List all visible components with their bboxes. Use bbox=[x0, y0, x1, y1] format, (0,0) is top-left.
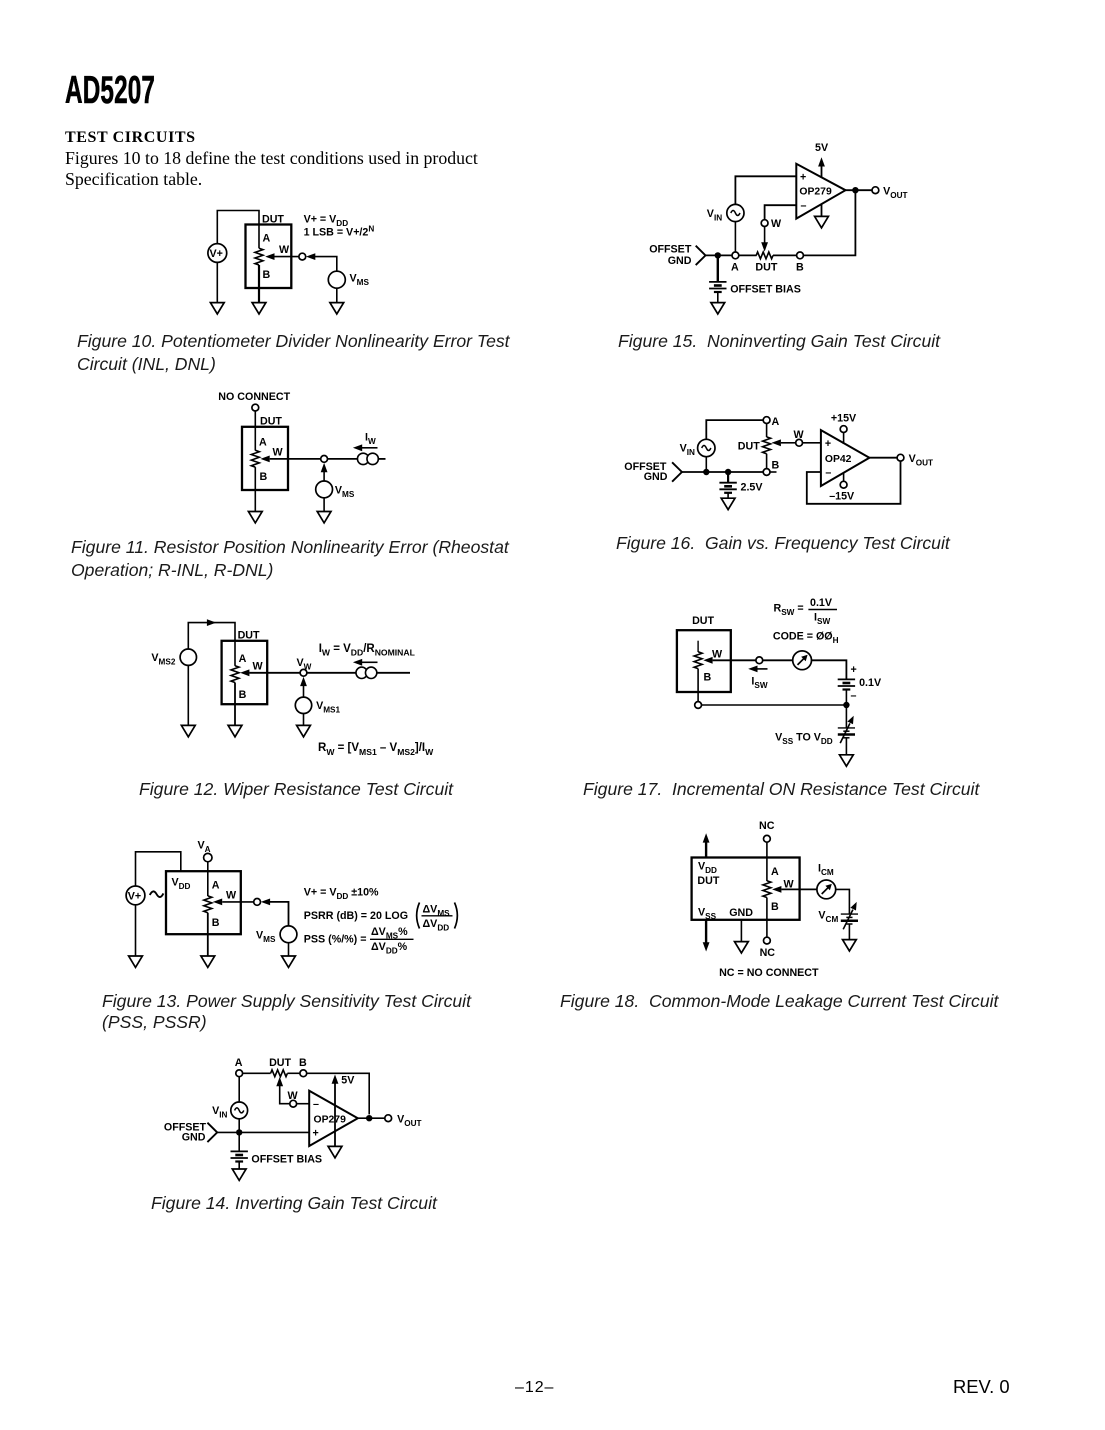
svg-text:DUT: DUT bbox=[262, 214, 284, 226]
wiper arrow bbox=[772, 886, 781, 893]
ground below VCM bbox=[843, 940, 857, 951]
caption figure 11 bbox=[71, 536, 509, 582]
variable source VCM bbox=[841, 902, 858, 929]
svg-text:B: B bbox=[299, 1057, 307, 1069]
feedback wire bbox=[807, 461, 901, 504]
wire V+ top to box bbox=[136, 852, 181, 886]
wire offset gnd to B bbox=[682, 471, 763, 473]
svg-text:A: A bbox=[731, 262, 739, 274]
ground below VMS2 bbox=[181, 725, 195, 736]
ground below op-amp bbox=[328, 1146, 342, 1157]
svg-text:A: A bbox=[235, 1057, 243, 1069]
wire battery to ground bbox=[717, 292, 719, 303]
ground below battery bbox=[232, 1169, 246, 1180]
svg-text:A: A bbox=[259, 437, 267, 449]
5V arrow bbox=[818, 157, 825, 166]
svg-text:W: W bbox=[273, 447, 284, 459]
op-amp OP42 bbox=[821, 430, 870, 486]
wire W to op-amp bbox=[803, 442, 822, 444]
wire A to resistor bbox=[739, 254, 757, 256]
VSS arrow down bbox=[705, 920, 707, 944]
svg-text:VIN: VIN bbox=[680, 443, 695, 458]
svg-text:W: W bbox=[771, 218, 782, 230]
wire meter to vsource bbox=[836, 889, 850, 914]
source VMS1 bbox=[295, 697, 311, 713]
wire resistor to NC bottom bbox=[766, 898, 768, 938]
wire wiper to meter bbox=[781, 888, 817, 890]
svg-text:A: A bbox=[263, 233, 271, 245]
stub right of B bbox=[770, 471, 777, 473]
svg-text:NC: NC bbox=[759, 820, 775, 832]
resistor DUT bbox=[763, 437, 771, 454]
wire junction to battery bbox=[717, 255, 719, 281]
svg-text:+: + bbox=[313, 1128, 319, 1140]
wire GND to ground bbox=[740, 920, 742, 942]
ground below V+ bbox=[129, 956, 143, 967]
svg-text:DUT: DUT bbox=[697, 875, 719, 887]
current source IW bbox=[356, 667, 377, 678]
ground below DUT bbox=[228, 725, 242, 736]
node VW bbox=[300, 669, 307, 676]
junction VIN bbox=[703, 469, 709, 475]
current source IW bbox=[357, 453, 378, 464]
terminal W bbox=[796, 439, 803, 446]
caption figure 14 bbox=[151, 1193, 437, 1214]
svg-text:DUT: DUT bbox=[269, 1057, 291, 1069]
wire offset gnd to op-amp plus bbox=[217, 1131, 310, 1133]
svg-text:ISW: ISW bbox=[814, 612, 830, 627]
svg-text:A: A bbox=[212, 880, 220, 892]
junction bbox=[843, 702, 849, 708]
svg-text:–: – bbox=[825, 467, 831, 479]
wire resistor to B bbox=[773, 254, 797, 256]
caption figure 16 bbox=[616, 533, 950, 554]
source VMS bbox=[316, 481, 333, 498]
svg-text:NC = NO CONNECT: NC = NO CONNECT bbox=[719, 967, 819, 979]
wire B to output junction bbox=[307, 1073, 370, 1114]
node bbox=[254, 899, 261, 906]
terminal B bbox=[763, 469, 770, 476]
heading TEST CIRCUITS bbox=[65, 129, 196, 147]
wire B to ground bbox=[207, 913, 209, 956]
wire battery to ground bbox=[238, 1162, 240, 1170]
output wire bbox=[869, 457, 897, 459]
wire current source to right bbox=[377, 672, 410, 674]
svg-text:W: W bbox=[794, 429, 805, 441]
wiper arrow bbox=[772, 439, 781, 446]
svg-text:2.5V: 2.5V bbox=[741, 482, 764, 494]
svg-text:VA: VA bbox=[198, 840, 211, 855]
svg-text:VMS: VMS bbox=[350, 273, 370, 288]
ground bbox=[840, 755, 854, 766]
wiper arrow bbox=[240, 669, 249, 676]
svg-text:ISW: ISW bbox=[751, 675, 767, 690]
svg-text:VDD: VDD bbox=[172, 877, 191, 892]
ground below DUT bbox=[248, 512, 262, 523]
terminal +15V bbox=[840, 426, 847, 433]
fraction bar bbox=[808, 609, 837, 611]
wire NC to DUT bbox=[254, 411, 256, 451]
wire junction to battery 2.5V bbox=[727, 472, 729, 483]
svg-text:OFFSET: OFFSET bbox=[649, 243, 692, 255]
wire A to resistor bbox=[766, 424, 768, 438]
svg-text:+: + bbox=[825, 438, 831, 450]
terminal W bbox=[761, 220, 768, 227]
wire vsource to ground bbox=[845, 738, 847, 755]
wire +15V into op-amp bbox=[843, 433, 845, 445]
wire to plus input bbox=[735, 176, 796, 204]
svg-text:W: W bbox=[253, 661, 264, 673]
wire B to ground bbox=[234, 683, 236, 726]
svg-text:OP42: OP42 bbox=[825, 454, 852, 465]
wire vsource to ground bbox=[848, 924, 850, 940]
arrow on top wire bbox=[207, 619, 216, 626]
resistor DUT bbox=[251, 450, 259, 467]
op-amp OP279 bbox=[309, 1091, 358, 1146]
wiper arrow down bbox=[764, 227, 766, 244]
chevron offset gnd bbox=[696, 246, 706, 265]
svg-text:+: + bbox=[851, 664, 857, 676]
svg-text:B: B bbox=[260, 471, 268, 483]
svg-text:–: – bbox=[313, 1099, 319, 1111]
caption figure 15 bbox=[618, 331, 940, 352]
terminal B bbox=[797, 252, 804, 259]
svg-text:OP279: OP279 bbox=[799, 187, 832, 198]
wire B to output bbox=[803, 190, 855, 255]
svg-text:ΔVMS%: ΔVMS% bbox=[371, 926, 408, 941]
wire VMS to ground bbox=[336, 288, 338, 302]
DUT box bbox=[242, 427, 288, 490]
arrow ISW bbox=[748, 666, 757, 673]
paren right bbox=[455, 903, 458, 929]
chevron offset gnd bbox=[672, 462, 682, 481]
wiper arrow up bbox=[276, 1077, 283, 1086]
arrow from VMS bbox=[261, 899, 270, 906]
arrow VMS1 into node bbox=[300, 677, 307, 686]
ground below VMS bbox=[317, 512, 331, 523]
svg-text:GND: GND bbox=[729, 907, 753, 919]
terminal VA bbox=[204, 853, 212, 861]
svg-text:VDD: VDD bbox=[698, 861, 717, 876]
ground below GND bbox=[735, 942, 749, 953]
svg-text:VCM: VCM bbox=[818, 910, 838, 925]
wire resistor B to ground bbox=[258, 265, 260, 303]
caption figure 18 bbox=[560, 991, 998, 1012]
svg-text:W: W bbox=[279, 244, 290, 256]
wire meter to battery bbox=[812, 660, 847, 679]
svg-text:B: B bbox=[771, 901, 779, 913]
wire VIN to bottom bbox=[705, 457, 707, 472]
battery OFFSET BIAS bbox=[231, 1151, 248, 1161]
arrow IW direction bbox=[353, 444, 362, 451]
svg-text:OFFSET BIAS: OFFSET BIAS bbox=[730, 284, 801, 296]
wire VMS to node bbox=[268, 902, 289, 926]
svg-text:A: A bbox=[239, 653, 247, 665]
ground below DUT bbox=[201, 956, 215, 967]
wire A to resistor bbox=[243, 1072, 271, 1074]
wire VMS2 to ground bbox=[187, 665, 189, 725]
paragraph intro bbox=[65, 148, 478, 190]
junction battery bbox=[715, 252, 721, 258]
ground below DUT bbox=[252, 303, 266, 314]
svg-text:1 LSB = V+/2N: 1 LSB = V+/2N bbox=[304, 225, 375, 239]
svg-text:B: B bbox=[796, 262, 804, 274]
wire -15V into op-amp bbox=[843, 473, 845, 482]
battery OFFSET BIAS bbox=[709, 282, 726, 292]
ac tilde bbox=[150, 891, 164, 897]
svg-text:ΔVDD: ΔVDD bbox=[423, 918, 450, 933]
wire minus input bbox=[765, 205, 797, 219]
wiper arrow bbox=[703, 657, 712, 664]
svg-text:5V: 5V bbox=[341, 1075, 355, 1087]
svg-text:IW = VDD/RNOMINAL: IW = VDD/RNOMINAL bbox=[319, 643, 415, 658]
fraction PSS bar bbox=[370, 938, 414, 940]
caption figure 13 bbox=[102, 991, 471, 1033]
node bbox=[756, 657, 763, 664]
terminal B bbox=[300, 1070, 307, 1077]
wire top to A bbox=[706, 420, 763, 439]
DUT box bbox=[246, 225, 292, 289]
terminal A bbox=[763, 417, 770, 424]
svg-text:–15V: –15V bbox=[829, 491, 855, 503]
svg-text:VMS1: VMS1 bbox=[316, 700, 340, 715]
svg-text:GND: GND bbox=[644, 471, 668, 483]
resistor DUT A-B bbox=[255, 248, 263, 265]
resistor DUT bbox=[231, 666, 239, 683]
wire W to op-amp bbox=[297, 1103, 310, 1105]
wire B to ground bbox=[254, 467, 256, 511]
arrow VMS into node bbox=[321, 463, 328, 472]
source VIN bbox=[698, 439, 715, 456]
wire W to node bbox=[249, 672, 300, 674]
svg-text:VOUT: VOUT bbox=[909, 453, 933, 468]
svg-text:PSRR (dB) = 20 LOG: PSRR (dB) = 20 LOG bbox=[304, 910, 408, 922]
DUT box bbox=[166, 871, 241, 934]
output wire bbox=[358, 1117, 385, 1119]
svg-text:DUT: DUT bbox=[755, 262, 777, 274]
terminal A bbox=[732, 252, 739, 259]
wire junction to battery bbox=[238, 1132, 240, 1151]
wire VA into box bbox=[207, 862, 209, 896]
svg-text:V+ = VDD ±10%: V+ = VDD ±10% bbox=[304, 887, 379, 902]
wire W to node bbox=[222, 901, 254, 903]
wire VMS to ground bbox=[288, 943, 290, 956]
caption figure 12 bbox=[139, 779, 453, 800]
resistor DUT bbox=[271, 1070, 288, 1077]
svg-text:RSW =: RSW = bbox=[774, 603, 804, 618]
resistor DUT bbox=[204, 896, 212, 913]
terminal VOUT bbox=[385, 1115, 392, 1122]
svg-text:W: W bbox=[226, 890, 237, 902]
terminal A bbox=[236, 1070, 243, 1077]
svg-text:0.1V: 0.1V bbox=[810, 597, 833, 609]
DUT box bbox=[222, 641, 268, 704]
chevron offset gnd bbox=[207, 1123, 217, 1142]
wire wiper to W bbox=[781, 442, 796, 444]
svg-text:GND: GND bbox=[182, 1132, 206, 1144]
svg-text:V+: V+ bbox=[128, 890, 141, 902]
wire current source tail bbox=[378, 458, 385, 460]
svg-text:VIN: VIN bbox=[707, 208, 722, 223]
svg-text:–: – bbox=[801, 200, 807, 212]
caption figure 10 bbox=[77, 330, 510, 377]
svg-text:ICM: ICM bbox=[818, 863, 834, 878]
DUT box bbox=[692, 858, 800, 920]
svg-text:B: B bbox=[212, 917, 220, 929]
resistor DUT bbox=[763, 881, 771, 898]
arrow IW direction bbox=[353, 659, 362, 666]
svg-text:ΔVDD%: ΔVDD% bbox=[371, 941, 408, 956]
wire resistor B to node bbox=[697, 669, 699, 702]
footer revision bbox=[953, 1376, 1010, 1398]
wire VMS to node bbox=[313, 257, 337, 272]
terminal NC bbox=[252, 404, 259, 411]
terminal W bbox=[290, 1100, 297, 1107]
svg-text:W: W bbox=[712, 648, 723, 660]
source VIN sine bbox=[231, 1102, 248, 1119]
wire offset gnd to A bbox=[706, 254, 733, 256]
source VMS bbox=[328, 271, 345, 288]
ground below battery bbox=[721, 498, 735, 509]
5V arrow bbox=[332, 1075, 339, 1084]
wire resistor to B bbox=[287, 1072, 300, 1074]
terminal NC top bbox=[764, 835, 771, 842]
wire VIN to A bbox=[734, 222, 736, 252]
battery 2.5V bbox=[719, 483, 736, 493]
wire VMS2 top to DUT bbox=[188, 623, 235, 666]
svg-text:GND: GND bbox=[668, 255, 692, 267]
svg-text:5V: 5V bbox=[815, 142, 829, 154]
terminal B bottom bbox=[695, 702, 702, 709]
svg-text:CODE = ØØH: CODE = ØØH bbox=[773, 631, 839, 646]
paren left bbox=[417, 903, 420, 929]
svg-text:VMS: VMS bbox=[335, 485, 355, 500]
svg-text:VSS TO VDD: VSS TO VDD bbox=[775, 731, 833, 746]
node wiper terminal bbox=[299, 253, 306, 260]
wire A to VIN bbox=[238, 1077, 240, 1102]
wiper arrow bbox=[260, 456, 269, 463]
terminal NC bottom bbox=[764, 937, 771, 944]
svg-text:–: – bbox=[851, 690, 857, 702]
wire node to current source bbox=[328, 458, 359, 460]
wire VIN to junction bbox=[238, 1119, 240, 1133]
svg-text:V+: V+ bbox=[210, 248, 223, 260]
ammeter ICM bbox=[817, 880, 836, 899]
wire V+ to ground bbox=[135, 905, 137, 956]
svg-text:VOUT: VOUT bbox=[883, 185, 907, 200]
fraction PSRR bar bbox=[422, 915, 453, 917]
svg-text:NO CONNECT: NO CONNECT bbox=[218, 391, 290, 403]
wiper arrow W bbox=[265, 253, 274, 260]
svg-text:OFFSET BIAS: OFFSET BIAS bbox=[251, 1154, 322, 1166]
svg-text:OP279: OP279 bbox=[314, 1114, 347, 1125]
wire battery to ground bbox=[727, 493, 729, 499]
svg-text:VMS2: VMS2 bbox=[151, 652, 175, 667]
svg-text:+: + bbox=[800, 172, 806, 184]
wire wiper to node bbox=[713, 659, 756, 661]
wire W to node bbox=[270, 458, 321, 460]
ground below V+ bbox=[210, 303, 224, 314]
wiper arrow bbox=[213, 899, 222, 906]
svg-text:DUT: DUT bbox=[260, 415, 282, 427]
wire junction to vsource bbox=[845, 705, 847, 728]
svg-text:B: B bbox=[704, 672, 712, 684]
svg-text:DUT: DUT bbox=[738, 440, 760, 452]
resistor DUT bbox=[694, 652, 702, 669]
caption figure 17 bbox=[583, 779, 979, 800]
wire top V+ to DUT bbox=[217, 211, 259, 249]
svg-text:B: B bbox=[239, 689, 247, 701]
variable source VSS to VDD bbox=[838, 716, 855, 743]
source VMS2 bbox=[180, 649, 196, 665]
junction VIN bottom bbox=[236, 1129, 242, 1135]
ground below battery bbox=[711, 303, 725, 314]
terminal VOUT bbox=[872, 187, 879, 194]
svg-text:+15V: +15V bbox=[831, 413, 857, 425]
op-amp OP279 bbox=[796, 164, 845, 219]
terminal VOUT bbox=[897, 454, 904, 461]
ammeter bbox=[793, 651, 812, 670]
svg-text:VIN: VIN bbox=[212, 1105, 227, 1120]
node VW bbox=[321, 456, 328, 463]
ground below VMS bbox=[330, 303, 344, 314]
wire VMS to ground bbox=[323, 498, 325, 512]
ground below VMS1 bbox=[297, 725, 311, 736]
svg-text:B: B bbox=[772, 460, 780, 472]
source VMS bbox=[280, 926, 297, 943]
svg-text:IW: IW bbox=[365, 432, 376, 447]
junction output bbox=[852, 187, 858, 193]
wire resistor to B bbox=[766, 454, 768, 469]
wire NC to resistor bbox=[766, 842, 768, 881]
title AD5207 logo bbox=[65, 69, 155, 113]
junction battery bbox=[725, 469, 731, 475]
footer page number bbox=[515, 1379, 554, 1397]
battery 0.1V bbox=[838, 679, 855, 689]
terminal -15V bbox=[840, 481, 847, 488]
svg-text:NC: NC bbox=[760, 947, 776, 959]
DUT box bbox=[677, 630, 731, 692]
VDD arrow up bbox=[703, 833, 710, 842]
svg-text:RW = [VMS1 – VMS2]/IW: RW = [VMS1 – VMS2]/IW bbox=[318, 742, 434, 757]
junction output bbox=[366, 1115, 372, 1121]
wire bottom B to junction bbox=[702, 704, 847, 706]
arrow from VMS bbox=[306, 253, 315, 260]
resistor DUT bbox=[756, 252, 773, 259]
svg-text:VMS: VMS bbox=[256, 929, 276, 944]
svg-text:VOUT: VOUT bbox=[397, 1113, 421, 1128]
svg-text:DUT: DUT bbox=[692, 615, 714, 627]
output wire bbox=[846, 189, 872, 191]
ground below op-amp bbox=[815, 216, 829, 227]
source V+ bbox=[126, 886, 145, 905]
wire wiper to W bbox=[280, 1085, 290, 1104]
wire V+ to ground bbox=[216, 262, 218, 302]
resistor stub top bbox=[697, 641, 699, 652]
wire battery to junction bbox=[845, 689, 847, 705]
wire VMS1 to ground bbox=[303, 714, 305, 726]
wire node to meter bbox=[763, 659, 793, 661]
source V+ bbox=[208, 244, 227, 263]
ground below VMS bbox=[282, 956, 296, 967]
svg-text:A: A bbox=[772, 416, 780, 428]
svg-text:B: B bbox=[263, 269, 271, 281]
wire node to current source bbox=[307, 672, 357, 674]
svg-text:PSS (%/%) =: PSS (%/%) = bbox=[304, 934, 367, 946]
source VIN bbox=[727, 204, 744, 221]
svg-text:A: A bbox=[771, 866, 779, 878]
svg-text:0.1V: 0.1V bbox=[859, 677, 882, 689]
